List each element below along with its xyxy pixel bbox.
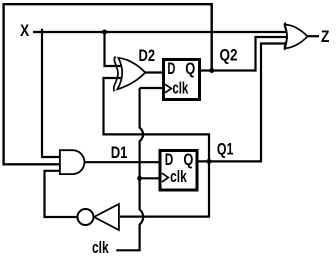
- svg-text:Q1: Q1: [217, 140, 234, 159]
- wire: X input line across the top to OR gate top input: [33, 31, 287, 33]
- node: junction dot where XOR branch taps X wire: [102, 30, 107, 35]
- wire: node Q1 down to inverter input: [120, 161, 209, 216]
- svg-text:D1: D1: [111, 143, 128, 162]
- wire: clock vertical line with hops over Q1 feedback and inverter input wires: [116, 88, 143, 250]
- node: junction dot Q2 feedback tap: [209, 68, 214, 73]
- xor-gate U1 back arc: [114, 57, 118, 92]
- wire: X branch down to XOR gate top input: [105, 32, 124, 66]
- wire: OR gate output to Z: [308, 35, 320, 37]
- svg-text:clk: clk: [172, 78, 188, 97]
- wire: inverter output to AND gate bottom input: [45, 171, 78, 217]
- wire: Q2 output to OR gate middle input: [199, 37, 287, 71]
- wire: outer feedback loop from node Q2 up over the top, down the left side, into AND gate middle input: [4, 4, 212, 164]
- wire: AND output D1 to flip-flop U3 D input: [85, 161, 162, 163]
- wire: Q1 feedback from node Q1 to XOR gate bottom input: [104, 78, 210, 162]
- svg-text:X: X: [20, 21, 30, 40]
- svg-text:Q2: Q2: [220, 45, 238, 64]
- wire: flip-flop U2 clk stub from clock line: [140, 87, 164, 89]
- svg-text:Z: Z: [321, 27, 329, 46]
- flip-flop U2 clock edge triangle: [165, 84, 171, 92]
- svg-text:Q: Q: [185, 59, 195, 78]
- flip-flop U2 (upper D flip-flop) box: [164, 60, 200, 100]
- xor-gate U1 body: [117, 58, 145, 90]
- flip-flop U3 clock edge triangle: [162, 173, 168, 182]
- svg-text:clk: clk: [170, 167, 187, 186]
- inverter U5 triangle pointing left: [94, 204, 119, 230]
- or-gate U6 body: [285, 25, 308, 49]
- svg-text:D2: D2: [139, 46, 156, 65]
- svg-text:clk: clk: [92, 238, 109, 257]
- node: junction dot Q1 feedback tap: [207, 159, 212, 164]
- or-gate U6 concave input edge with flared ends: [285, 23, 287, 50]
- flip-flop U3 (lower D flip-flop) box: [160, 151, 197, 191]
- wire: XOR output to flip-flop U2 D input: [145, 71, 164, 73]
- wire: clock stub into flip-flop U3 clk: [140, 177, 161, 179]
- svg-text:D: D: [167, 59, 175, 78]
- node: junction dot clock line to flip-flop U3 clk: [137, 176, 142, 181]
- inverter U5 output bubble: [78, 209, 94, 225]
- wire: Q1 output to OR gate bottom input: [196, 44, 287, 162]
- wire: X branch down to AND gate top input: [42, 29, 60, 157]
- and-gate U4: [60, 150, 85, 174]
